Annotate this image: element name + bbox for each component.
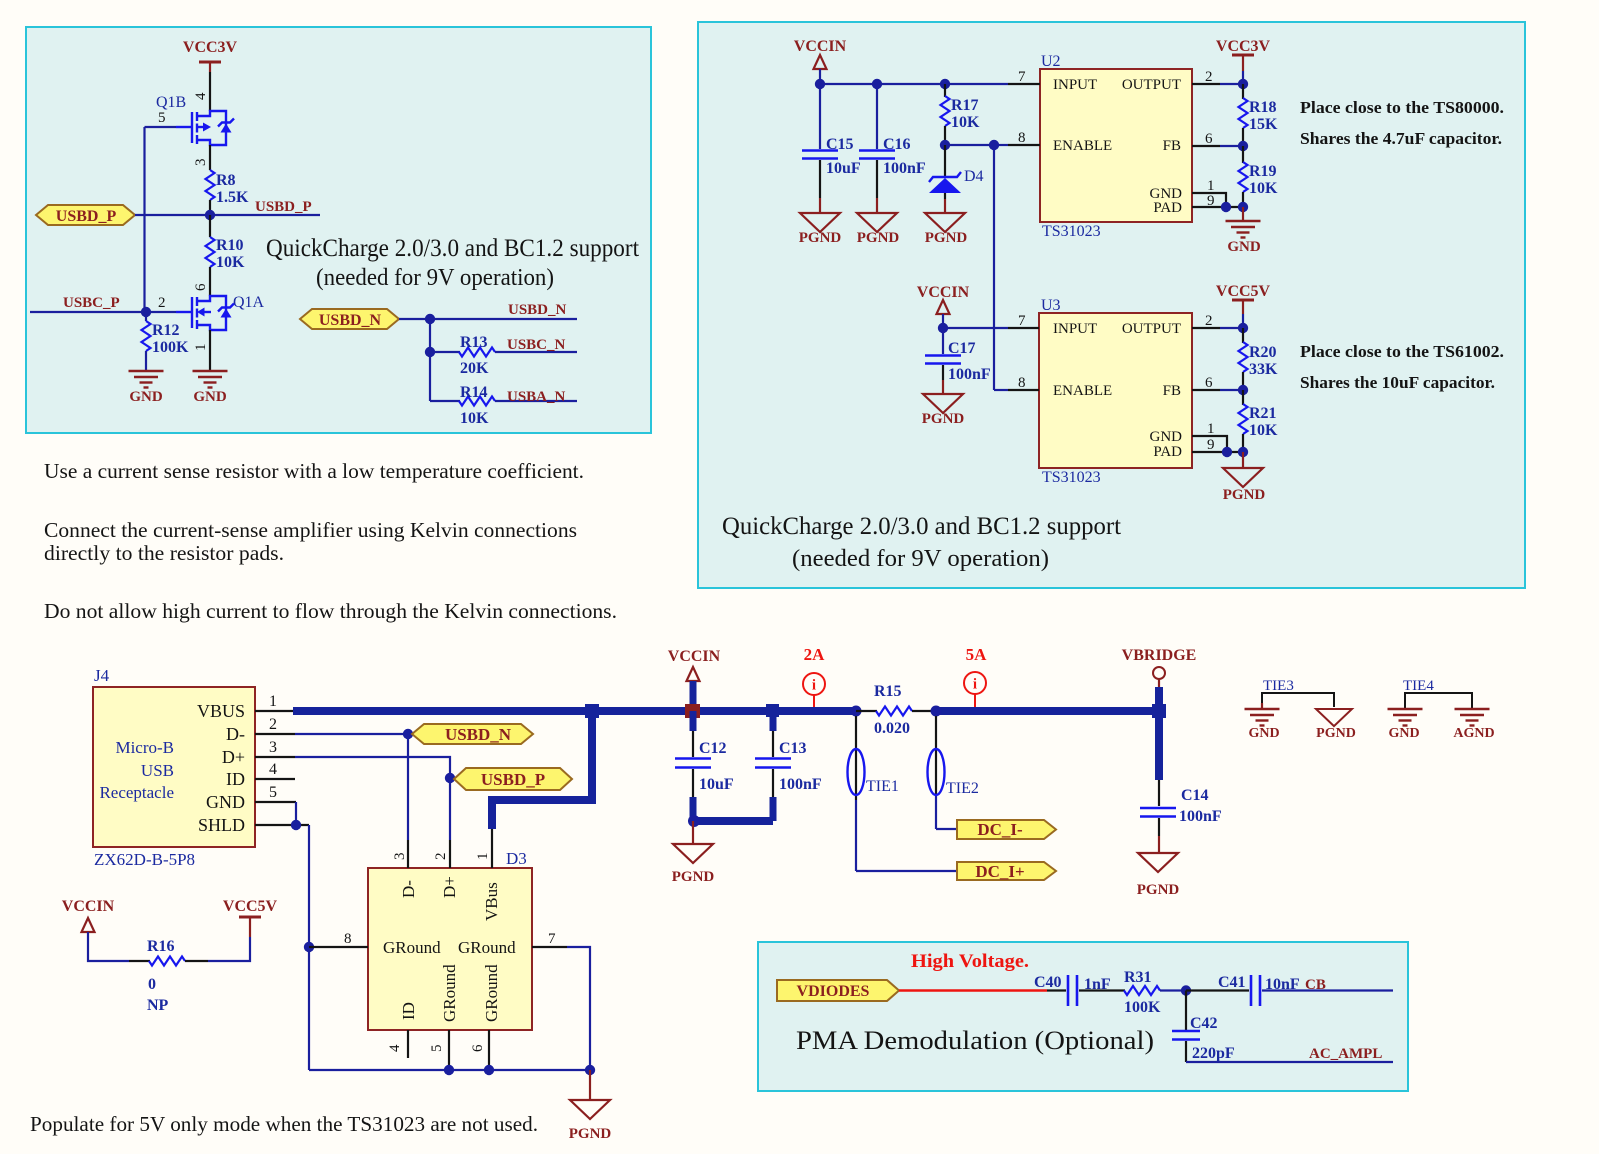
svg-text:AGND: AGND — [1453, 726, 1494, 741]
svg-text:4: 4 — [387, 1044, 403, 1052]
svg-text:220pF: 220pF — [1192, 1045, 1235, 1062]
svg-text:R18: R18 — [1249, 99, 1277, 116]
svg-text:0: 0 — [148, 976, 156, 993]
svg-text:5A: 5A — [966, 645, 988, 664]
svg-text:TIE4: TIE4 — [1403, 678, 1434, 694]
svg-text:GND: GND — [1248, 726, 1279, 741]
svg-text:Q1B: Q1B — [156, 94, 186, 111]
svg-text:15K: 15K — [1249, 116, 1278, 133]
svg-text:2: 2 — [433, 853, 449, 861]
svg-text:R10: R10 — [216, 237, 244, 254]
svg-text:VCC3V: VCC3V — [1216, 38, 1271, 55]
svg-text:D+: D+ — [440, 876, 459, 898]
svg-text:J4: J4 — [94, 666, 110, 685]
svg-text:100nF: 100nF — [1179, 808, 1222, 825]
svg-text:Receptacle: Receptacle — [99, 783, 174, 802]
svg-text:VCC5V: VCC5V — [223, 898, 278, 915]
svg-text:INPUT: INPUT — [1053, 77, 1097, 93]
svg-text:D-: D- — [226, 724, 245, 744]
svg-text:5: 5 — [429, 1045, 445, 1053]
svg-text:OUTPUT: OUTPUT — [1122, 321, 1181, 337]
svg-text:ID: ID — [226, 769, 245, 789]
svg-text:USBD_N: USBD_N — [508, 302, 567, 318]
svg-text:PAD: PAD — [1153, 444, 1182, 460]
svg-text:Connect the current-sense ampl: Connect the current-sense amplifier usin… — [44, 518, 577, 542]
svg-text:PMA Demodulation (Optional): PMA Demodulation (Optional) — [796, 1026, 1154, 1055]
svg-text:1: 1 — [475, 853, 491, 861]
svg-text:Shares the 4.7uF capacitor.: Shares the 4.7uF capacitor. — [1300, 129, 1502, 148]
svg-text:Place close to the TS61002.: Place close to the TS61002. — [1300, 342, 1504, 361]
svg-text:8: 8 — [344, 931, 352, 947]
svg-text:U2: U2 — [1041, 53, 1061, 70]
svg-text:TIE1: TIE1 — [866, 778, 899, 795]
svg-text:VCCIN: VCCIN — [62, 898, 115, 915]
svg-text:D4: D4 — [964, 168, 984, 185]
svg-text:10K: 10K — [1249, 180, 1278, 197]
svg-text:PGND: PGND — [922, 411, 965, 427]
svg-text:7: 7 — [1018, 69, 1026, 85]
svg-text:1: 1 — [269, 693, 277, 710]
svg-text:Q1A: Q1A — [233, 294, 265, 311]
svg-text:R21: R21 — [1249, 405, 1277, 422]
svg-text:GND: GND — [1388, 726, 1419, 741]
svg-text:2: 2 — [1205, 313, 1213, 329]
svg-text:1: 1 — [1207, 178, 1215, 194]
svg-text:USBD_N: USBD_N — [445, 725, 512, 744]
svg-text:6: 6 — [193, 283, 209, 291]
svg-text:NP: NP — [147, 997, 169, 1014]
svg-text:6: 6 — [470, 1044, 486, 1052]
svg-text:TIE2: TIE2 — [946, 780, 979, 797]
svg-text:ID: ID — [399, 1002, 418, 1020]
svg-text:10uF: 10uF — [826, 160, 861, 177]
svg-text:ENABLE: ENABLE — [1053, 383, 1112, 399]
svg-text:PGND: PGND — [1316, 726, 1356, 741]
svg-text:SHLD: SHLD — [198, 815, 245, 835]
svg-text:4: 4 — [269, 761, 277, 778]
svg-text:100nF: 100nF — [883, 160, 926, 177]
svg-text:VCCIN: VCCIN — [668, 648, 721, 665]
svg-text:GND: GND — [1227, 239, 1261, 255]
svg-text:GRound: GRound — [458, 938, 516, 957]
svg-text:PAD: PAD — [1153, 200, 1182, 216]
svg-text:(needed for 9V operation): (needed for 9V operation) — [316, 265, 554, 291]
svg-text:5: 5 — [158, 110, 166, 126]
svg-text:2A: 2A — [804, 645, 826, 664]
svg-text:8: 8 — [1018, 130, 1026, 146]
svg-text:ENABLE: ENABLE — [1053, 138, 1112, 154]
svg-text:PGND: PGND — [1223, 487, 1266, 503]
svg-text:1.5K: 1.5K — [216, 189, 249, 206]
svg-text:GRound: GRound — [440, 964, 459, 1022]
svg-text:R31: R31 — [1124, 969, 1152, 986]
svg-text:2: 2 — [269, 716, 277, 733]
svg-text:10uF: 10uF — [699, 776, 734, 793]
svg-text:C42: C42 — [1190, 1015, 1218, 1032]
svg-text:TIE3: TIE3 — [1263, 678, 1294, 694]
svg-text:C15: C15 — [826, 136, 854, 153]
svg-text:R20: R20 — [1249, 344, 1277, 361]
svg-text:GND: GND — [1150, 429, 1183, 445]
svg-text:GRound: GRound — [383, 938, 441, 957]
svg-text:FB: FB — [1163, 383, 1181, 399]
svg-text:10K: 10K — [951, 114, 980, 131]
svg-text:10K: 10K — [460, 410, 489, 427]
svg-text:7: 7 — [1018, 313, 1026, 329]
svg-text:100nF: 100nF — [779, 776, 822, 793]
svg-text:U3: U3 — [1041, 297, 1061, 314]
svg-text:High Voltage.: High Voltage. — [911, 951, 1029, 972]
svg-text:6: 6 — [1205, 375, 1213, 391]
svg-text:10nF: 10nF — [1265, 976, 1300, 993]
svg-text:Use a current sense resistor w: Use a current sense resistor with a low … — [44, 459, 584, 483]
svg-text:Populate for 5V only mode when: Populate for 5V only mode when the TS310… — [30, 1112, 538, 1136]
svg-text:1nF: 1nF — [1084, 976, 1111, 993]
svg-text:CB: CB — [1305, 977, 1326, 993]
svg-text:USBD_P: USBD_P — [481, 770, 545, 789]
svg-text:QuickCharge 2.0/3.0 and BC1.2: QuickCharge 2.0/3.0 and BC1.2 support — [722, 513, 1121, 540]
svg-text:DC_I+: DC_I+ — [975, 862, 1024, 881]
svg-text:R16: R16 — [147, 938, 175, 955]
svg-text:VBus: VBus — [482, 882, 501, 921]
svg-text:VCC5V: VCC5V — [1216, 283, 1271, 300]
svg-text:R17: R17 — [951, 97, 979, 114]
svg-text:C40: C40 — [1034, 974, 1062, 991]
svg-text:PGND: PGND — [925, 230, 968, 246]
svg-text:2: 2 — [1205, 69, 1213, 85]
svg-text:PGND: PGND — [1137, 882, 1180, 898]
svg-text:9: 9 — [1207, 437, 1215, 453]
svg-text:D-: D- — [399, 880, 418, 898]
svg-text:Do not allow high current to f: Do not allow high current to flow throug… — [44, 599, 617, 623]
svg-text:3: 3 — [392, 853, 408, 861]
svg-text:OUTPUT: OUTPUT — [1122, 77, 1181, 93]
svg-text:R13: R13 — [460, 334, 488, 351]
svg-text:C17: C17 — [948, 340, 976, 357]
svg-text:1: 1 — [193, 344, 209, 352]
svg-text:VCC3V: VCC3V — [183, 39, 238, 56]
svg-text:C16: C16 — [883, 136, 911, 153]
svg-text:8: 8 — [1018, 375, 1026, 391]
svg-text:10K: 10K — [216, 254, 245, 271]
svg-text:FB: FB — [1163, 138, 1181, 154]
svg-text:USBC_P: USBC_P — [63, 295, 120, 311]
svg-text:5: 5 — [269, 784, 277, 801]
svg-text:GND: GND — [129, 389, 163, 405]
svg-text:D+: D+ — [222, 747, 245, 767]
svg-text:PGND: PGND — [672, 869, 715, 885]
svg-text:R15: R15 — [874, 683, 902, 700]
svg-text:USBC_N: USBC_N — [507, 337, 566, 353]
svg-text:VBUS: VBUS — [197, 701, 245, 721]
svg-text:VDIODES: VDIODES — [797, 983, 870, 1000]
svg-text:6: 6 — [1205, 131, 1213, 147]
svg-text:1: 1 — [1207, 421, 1215, 437]
svg-text:GND: GND — [206, 792, 245, 812]
svg-text:R19: R19 — [1249, 163, 1277, 180]
svg-text:USBA_N: USBA_N — [507, 389, 566, 405]
svg-text:VCCIN: VCCIN — [794, 38, 847, 55]
svg-text:D3: D3 — [506, 849, 527, 868]
svg-text:0.020: 0.020 — [874, 720, 910, 737]
svg-text:(needed for 9V operation): (needed for 9V operation) — [792, 546, 1049, 572]
svg-text:R8: R8 — [216, 172, 236, 189]
svg-text:100K: 100K — [1124, 999, 1161, 1016]
svg-text:PGND: PGND — [569, 1126, 612, 1142]
svg-text:10K: 10K — [1249, 422, 1278, 439]
svg-text:TS31023: TS31023 — [1042, 469, 1101, 486]
svg-text:directly to the resistor pads.: directly to the resistor pads. — [44, 541, 284, 565]
svg-text:Shares the 10uF capacitor.: Shares the 10uF capacitor. — [1300, 373, 1495, 392]
svg-text:DC_I-: DC_I- — [977, 820, 1023, 839]
svg-text:GRound: GRound — [482, 964, 501, 1022]
svg-text:AC_AMPL: AC_AMPL — [1309, 1046, 1382, 1062]
svg-text:2: 2 — [158, 295, 166, 311]
svg-text:100nF: 100nF — [948, 366, 991, 383]
svg-text:7: 7 — [548, 931, 556, 947]
svg-text:GND: GND — [193, 389, 227, 405]
svg-text:C13: C13 — [779, 740, 807, 757]
svg-text:R14: R14 — [460, 384, 488, 401]
svg-text:USBD_P: USBD_P — [255, 199, 312, 215]
svg-text:3: 3 — [193, 159, 209, 167]
svg-text:INPUT: INPUT — [1053, 321, 1097, 337]
svg-text:ZX62D-B-5P8: ZX62D-B-5P8 — [94, 850, 195, 869]
svg-text:C41: C41 — [1218, 974, 1246, 991]
svg-text:100K: 100K — [152, 339, 189, 356]
svg-text:QuickCharge 2.0/3.0 and BC1.2: QuickCharge 2.0/3.0 and BC1.2 support — [266, 235, 639, 262]
svg-text:PGND: PGND — [799, 230, 842, 246]
svg-text:4: 4 — [193, 92, 209, 100]
svg-text:R12: R12 — [152, 322, 180, 339]
svg-text:Place close to the TS80000.: Place close to the TS80000. — [1300, 98, 1504, 117]
svg-text:PGND: PGND — [857, 230, 900, 246]
svg-text:VBRIDGE: VBRIDGE — [1122, 647, 1197, 664]
svg-text:33K: 33K — [1249, 361, 1278, 378]
svg-text:USBD_N: USBD_N — [319, 312, 382, 329]
svg-text:TS31023: TS31023 — [1042, 223, 1101, 240]
svg-text:3: 3 — [269, 739, 277, 756]
svg-text:Micro-B: Micro-B — [115, 738, 174, 757]
svg-text:C12: C12 — [699, 740, 727, 757]
svg-text:20K: 20K — [460, 360, 489, 377]
svg-text:USBD_P: USBD_P — [56, 208, 117, 225]
svg-text:USB: USB — [141, 761, 174, 780]
svg-text:C14: C14 — [1181, 787, 1209, 804]
